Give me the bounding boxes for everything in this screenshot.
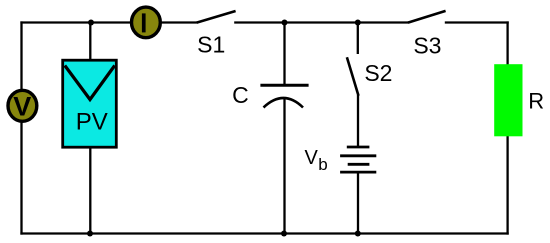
- svg-text:b: b: [318, 155, 327, 174]
- wire S2 to battery: [357, 95, 359, 148]
- wire capacitor top: [283, 23, 285, 86]
- wire left vertical: [20, 21, 22, 234]
- wire top-left horizontal: [20, 21, 130, 23]
- wire S2 top: [357, 23, 359, 55]
- voltmeter V: [8, 90, 37, 121]
- node bottom battery junction: [355, 231, 361, 237]
- wire bottom horizontal: [20, 232, 508, 234]
- svg-text:R: R: [528, 89, 544, 114]
- wire PV bottom: [89, 147, 91, 234]
- wire right vertical top: [506, 21, 508, 70]
- switch S2: [347, 57, 393, 95]
- wire battery bottom: [357, 171, 359, 234]
- svg-text:C: C: [232, 82, 249, 108]
- wire PV top: [89, 23, 91, 63]
- svg-text:PV: PV: [76, 108, 108, 135]
- svg-text:S2: S2: [364, 60, 392, 86]
- wire top middle (ammeter to S1): [162, 21, 198, 23]
- node top PV junction: [88, 20, 94, 26]
- svg-text:V: V: [305, 147, 319, 169]
- svg-text:S3: S3: [413, 33, 441, 59]
- wire right vertical bottom: [506, 131, 508, 235]
- resistor R: [494, 64, 544, 136]
- switch S3: [408, 11, 446, 59]
- node top capacitor junction: [282, 20, 288, 26]
- ammeter I: [132, 7, 161, 38]
- svg-text:V: V: [13, 91, 31, 121]
- switch S1: [197, 11, 236, 57]
- node bottom capacitor junction: [281, 231, 287, 237]
- wire top-right (S3 contact to right corner): [445, 21, 509, 23]
- wire top (S1 contact to S3 hinge): [234, 21, 408, 23]
- node top battery junction: [355, 20, 361, 26]
- wire capacitor bottom: [283, 98, 285, 234]
- capacitor C: [232, 82, 309, 108]
- node bottom PV junction: [87, 231, 93, 237]
- svg-text:S1: S1: [197, 31, 225, 57]
- PV module: [63, 60, 117, 147]
- battery Vb: [305, 147, 377, 174]
